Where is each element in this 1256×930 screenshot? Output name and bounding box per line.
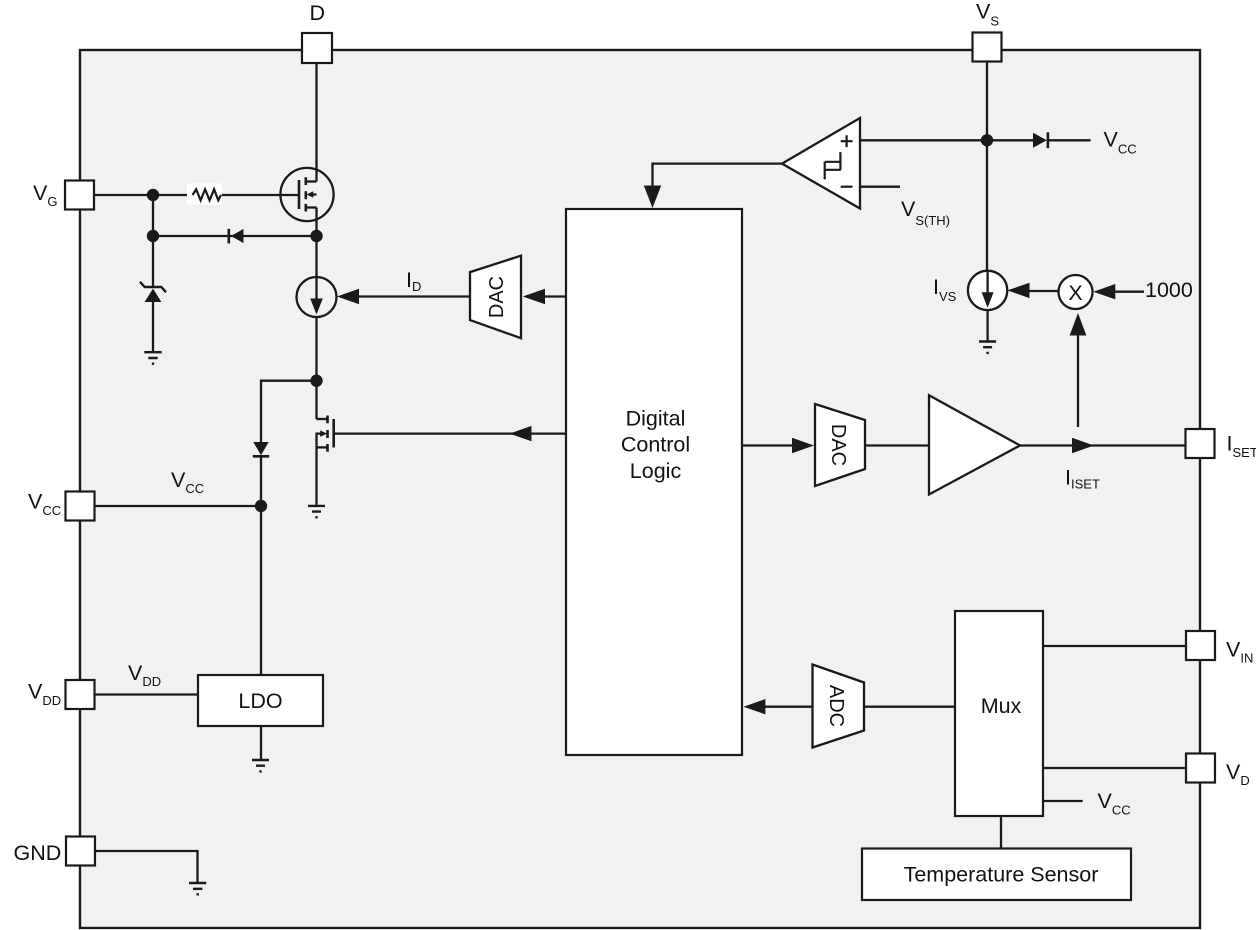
junction dot node A — [310, 375, 322, 387]
diode D3 cathode bar — [1047, 132, 1050, 148]
svg-text:Temperature Sensor: Temperature Sensor — [904, 863, 1099, 887]
wire Mux VCC stub — [1043, 800, 1083, 802]
transistor M2 source stub — [317, 446, 328, 448]
pin ISET — [1186, 429, 1215, 458]
wire junction A left and down to diode D2 — [261, 381, 317, 442]
resistor R1 backdrop — [187, 184, 222, 205]
Temperature Sensor box — [862, 849, 1131, 901]
junction dot diode row right — [310, 230, 322, 242]
wire comparator minus stub — [860, 186, 900, 188]
svg-text:1000: 1000 — [1145, 278, 1193, 302]
wire ISET branch up to X multiplier — [1077, 332, 1079, 427]
zener Z1 bar with hooks — [140, 282, 166, 292]
wire VCC junction down to LDO — [260, 506, 262, 675]
ground for M2 source — [308, 506, 325, 517]
arrowhead into DAC2 — [792, 438, 814, 453]
wire Mux to VD pin — [1043, 767, 1186, 769]
arrowhead on amplifier output — [1072, 438, 1094, 453]
comparator U1 minus sign — [841, 186, 853, 188]
diode D2 cathode bar — [253, 455, 269, 458]
wire diode D2 to VCC junction — [260, 457, 262, 506]
arrowhead comparator output into DCL — [644, 186, 661, 209]
junction dot VS comparator node — [981, 134, 993, 146]
wire D pin to M1 drain — [315, 63, 317, 182]
arrowhead into X multiplier from 1000 — [1093, 284, 1115, 299]
LDO box — [198, 675, 323, 726]
wire DAC1 to CS1 — [358, 295, 470, 297]
wire Mux to Temperature Sensor — [1000, 816, 1002, 849]
svg-text:VG: VG — [33, 181, 57, 209]
current source IVS circle — [968, 271, 1007, 310]
pin D — [302, 33, 332, 63]
transistor M2 drain stub — [317, 418, 328, 420]
wire CS1 bottom to junction A — [315, 317, 317, 381]
svg-text:DAC: DAC — [486, 276, 508, 318]
wire comparator output to DCL top — [653, 164, 783, 188]
X multiplier circle — [1059, 275, 1093, 309]
pin VD — [1186, 754, 1215, 783]
transistor M1 drain stub — [306, 180, 317, 182]
wire ADC to DCL — [765, 706, 813, 708]
pin VIN — [1186, 631, 1215, 660]
ground for IVS — [979, 342, 996, 353]
wire VCC pin to junction — [95, 505, 261, 507]
wire LDO bottom to ground — [260, 726, 262, 760]
wire Mux to VIN pin — [1043, 645, 1186, 647]
svg-text:LDO: LDO — [238, 689, 282, 713]
ADC trapezoid — [813, 665, 865, 748]
wire junction A to M2 drain — [315, 381, 317, 419]
svg-text:DAC: DAC — [827, 424, 849, 466]
current source IVS internal arrow — [986, 271, 988, 296]
svg-text:VD: VD — [1226, 760, 1250, 788]
wire VS junction to diode D3 and VCC — [987, 139, 1091, 141]
diode D1 triangle — [231, 229, 244, 243]
transistor M1 gate bar — [298, 180, 301, 209]
ground for LDO — [252, 760, 269, 771]
current source CS1 internal arrow — [315, 277, 317, 303]
svg-text:Logic: Logic — [630, 459, 682, 483]
svg-text:X: X — [1068, 281, 1082, 305]
wire Mux to ADC — [864, 706, 955, 708]
pin VDD — [66, 680, 95, 709]
transistor M1 channel segments — [304, 177, 307, 211]
diode D3 triangle — [1033, 133, 1047, 148]
svg-text:Digital: Digital — [626, 406, 686, 430]
svg-text:ISET: ISET — [1227, 432, 1256, 461]
current source CS1 circle — [297, 277, 337, 317]
wire DCL to DAC2 — [742, 444, 794, 446]
svg-text:ADC: ADC — [825, 685, 847, 727]
svg-text:VCC: VCC — [28, 490, 61, 519]
svg-text:Mux: Mux — [981, 694, 1022, 718]
resistor R1 — [193, 189, 222, 200]
wire DAC2 to amplifier — [865, 444, 929, 446]
wire DCL to DAC1 — [544, 295, 566, 297]
svg-text:VDD: VDD — [28, 680, 61, 709]
comparator U1 triangle — [782, 118, 860, 209]
wire VG pin to resistor and M1 gate — [95, 194, 300, 196]
arrowhead into ADC wire toward DCL — [743, 699, 765, 714]
arrowhead into X multiplier from below — [1070, 313, 1087, 336]
svg-text:VS: VS — [976, 0, 999, 29]
wire M1 source down to junction and current source CS1 — [315, 208, 317, 278]
comparator U1 hysteresis glyph — [825, 152, 841, 179]
arrowhead into CS1 from DAC1 — [337, 289, 359, 304]
wire junction to zener — [152, 236, 154, 287]
wire diode D1 row — [153, 235, 317, 237]
diode D2 triangle — [253, 442, 268, 455]
pin VG — [65, 181, 94, 210]
wire zener to ground — [152, 302, 154, 352]
arrowhead into IVS from X multiplier — [1008, 283, 1030, 298]
Mux box — [955, 611, 1043, 816]
wire VDD pin to LDO — [95, 693, 198, 695]
amplifier A1 triangle — [929, 395, 1020, 494]
DAC2 trapezoid — [815, 404, 865, 486]
zener Z1 triangle — [145, 289, 162, 302]
transistor M1 circle — [280, 168, 333, 221]
DAC1 trapezoid — [470, 256, 521, 339]
pin VCC — [66, 492, 95, 521]
transistor M1 source stub — [306, 206, 317, 208]
transistor M2 gate bar — [332, 419, 335, 448]
wire X multiplier to IVS arrow — [1029, 290, 1059, 292]
transistor M2 channel segments — [326, 416, 329, 452]
wire VG junction down — [152, 195, 154, 236]
junction dot VG resistor node — [147, 189, 159, 201]
svg-text:D: D — [310, 1, 326, 25]
wire M2 source to ground — [315, 447, 317, 506]
comparator U1 plus sign — [841, 135, 853, 147]
ground for GND pin — [189, 883, 206, 894]
arrowhead on M2 gate wire — [510, 426, 532, 441]
wire M2 gate to Digital Control Logic — [334, 432, 567, 434]
svg-text:VIN: VIN — [1226, 638, 1253, 666]
svg-text:Control: Control — [621, 433, 690, 457]
wire amplifier to ISET pin — [1020, 444, 1186, 446]
pin GND — [66, 837, 95, 866]
transistor M2 body stub and arrow — [317, 434, 322, 448]
wire 1000 to X multiplier — [1113, 291, 1144, 293]
ground for zener — [144, 352, 161, 364]
wire IVS bottom to ground — [986, 310, 988, 341]
wire VS pin down through junction to IVS — [986, 61, 988, 271]
pin VS — [973, 33, 1002, 62]
diode D1 cathode bar — [228, 229, 231, 244]
junction dot diode row left — [147, 230, 159, 242]
Digital Control Logic box — [566, 209, 742, 755]
transistor M1 body stub and arrow — [311, 193, 317, 195]
wire comparator plus input to VS junction — [860, 139, 987, 141]
svg-text:GND: GND — [14, 841, 62, 865]
wire GND pin to ground symbol — [95, 851, 198, 883]
arrowhead into DAC1 — [523, 289, 545, 304]
junction dot VCC node — [255, 500, 267, 512]
